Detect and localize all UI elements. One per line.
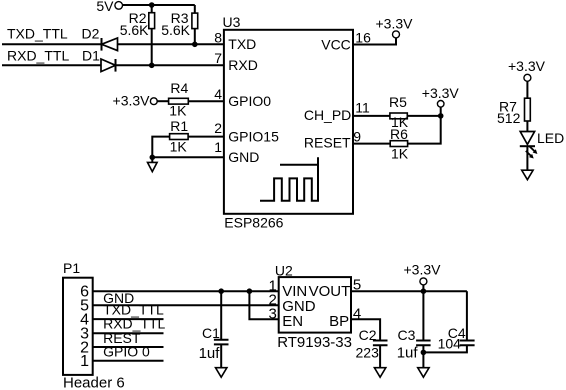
power 5V xyxy=(96,0,122,14)
wire D1 to pin7 xyxy=(116,64,224,66)
svg-text:+3.3V: +3.3V xyxy=(113,92,151,108)
junction R3/TXD xyxy=(192,42,198,48)
power +3.3V at R5 xyxy=(422,85,460,107)
wire BP to C2 xyxy=(351,319,380,340)
capacitor C2 xyxy=(356,327,388,360)
LED D3 xyxy=(520,130,564,160)
ground at C1 xyxy=(216,368,227,378)
wire node up to +3.3V xyxy=(440,107,442,116)
wire R2 top xyxy=(151,5,153,13)
junction VIN/C1 xyxy=(218,288,224,294)
junction R1/GND xyxy=(150,155,156,161)
wire P1 pin4 stub xyxy=(93,318,164,320)
svg-text:R1: R1 xyxy=(170,118,188,134)
connector P1 xyxy=(63,260,125,390)
svg-text:TXD_TTL: TXD_TTL xyxy=(7,26,68,42)
resistor R5 xyxy=(389,94,409,130)
svg-text:11: 11 xyxy=(355,100,370,116)
junction C3/C4 xyxy=(421,350,427,356)
svg-text:1: 1 xyxy=(80,353,89,370)
svg-text:5V: 5V xyxy=(96,0,114,14)
svg-text:RT9193-33: RT9193-33 xyxy=(277,334,352,351)
wire R2 bottom to RXD line xyxy=(151,29,153,66)
wire R5 to node xyxy=(407,115,440,117)
svg-text:C2: C2 xyxy=(359,327,377,343)
svg-text:P1: P1 xyxy=(63,260,80,276)
wire R4 to pin4 xyxy=(188,100,224,102)
svg-text:5.6K: 5.6K xyxy=(161,22,190,38)
wire R7 to LED xyxy=(526,121,528,132)
wire P1 pin3 stub xyxy=(93,332,164,334)
wire R3 top xyxy=(194,5,196,13)
wire R1 left to ground node xyxy=(152,137,169,158)
junction 5V/R2 xyxy=(149,2,155,8)
wire CH_PD to R5 xyxy=(353,115,390,117)
diode D1 xyxy=(82,47,116,71)
wire R3 bottom to TXD line xyxy=(194,29,196,45)
svg-text:EN: EN xyxy=(282,313,303,330)
svg-text:BP: BP xyxy=(329,313,349,330)
wire VCC to +3.3V xyxy=(353,38,396,45)
svg-text:TXD: TXD xyxy=(228,36,256,52)
svg-text:+3.3V: +3.3V xyxy=(376,15,414,31)
svg-text:7: 7 xyxy=(214,50,222,66)
wire C3 top xyxy=(422,291,424,340)
svg-text:GPIO0: GPIO0 xyxy=(228,93,271,109)
wire R1 to pin2 xyxy=(188,136,224,138)
svg-text:RXD: RXD xyxy=(228,57,258,73)
junction R2/RXD xyxy=(149,63,155,69)
svg-text:9: 9 xyxy=(353,128,361,144)
junction VIN/EN xyxy=(247,288,253,294)
wire RESET to R6 xyxy=(353,143,390,145)
svg-text:Header 6: Header 6 xyxy=(63,374,125,390)
wire EN tie xyxy=(249,291,278,319)
svg-text:4: 4 xyxy=(214,86,222,102)
wire P1 pin1 stub xyxy=(93,360,164,362)
svg-text:5.6K: 5.6K xyxy=(120,22,149,38)
svg-text:1K: 1K xyxy=(169,103,187,119)
wire P1 pin6 to U2 VIN xyxy=(93,290,279,292)
resistor R1 xyxy=(170,118,189,155)
junction R5/R6/+3.3V xyxy=(438,113,444,119)
capacitor C3 xyxy=(397,327,431,361)
wire R6 to node xyxy=(408,116,441,144)
svg-text:C3: C3 xyxy=(397,327,415,343)
svg-text:2: 2 xyxy=(214,120,222,136)
diode D2 xyxy=(82,26,118,51)
wire P1 pin5 to U2 GND xyxy=(93,304,279,306)
svg-text:GND: GND xyxy=(228,149,259,165)
wire C4 top xyxy=(466,291,468,340)
wire RXD_TTL xyxy=(2,64,101,66)
ground at LED xyxy=(522,170,533,180)
svg-text:CH_PD: CH_PD xyxy=(304,107,351,123)
antenna squarewave symbol xyxy=(260,157,318,201)
wire +3.3V to R7 xyxy=(526,81,528,98)
power +3.3V at LED xyxy=(508,58,546,82)
power +3.3V at R4 xyxy=(113,92,158,108)
wire +3.3V to R4 xyxy=(157,100,168,102)
svg-text:+3.3V: +3.3V xyxy=(422,85,460,101)
wire TXD_TTL xyxy=(2,43,102,45)
capacitor C4 xyxy=(438,325,475,351)
svg-text:U2: U2 xyxy=(275,262,293,278)
ground at C2 xyxy=(374,368,385,378)
resistor R2 xyxy=(120,10,155,38)
resistor R3 xyxy=(161,10,198,38)
resistor R6 xyxy=(390,126,409,162)
svg-text:U3: U3 xyxy=(223,14,241,30)
wire C4 bottom to C3 node xyxy=(423,345,467,352)
svg-text:1K: 1K xyxy=(391,145,409,161)
svg-text:1uf: 1uf xyxy=(199,345,221,362)
svg-text:R5: R5 xyxy=(389,94,407,110)
ground at C3 xyxy=(418,368,429,378)
svg-text:GPIO15: GPIO15 xyxy=(228,129,279,145)
wire C2 bottom xyxy=(379,345,381,368)
wire node to +3.3V xyxy=(422,285,424,291)
wire C3 bottom xyxy=(422,345,424,368)
svg-text:GPIO 0: GPIO 0 xyxy=(103,344,150,360)
svg-text:RXD_TTL: RXD_TTL xyxy=(7,47,69,63)
svg-text:1uf: 1uf xyxy=(397,344,419,361)
svg-text:223: 223 xyxy=(356,344,380,360)
svg-text:1: 1 xyxy=(214,139,222,155)
svg-text:VCC: VCC xyxy=(321,37,351,53)
svg-text:512: 512 xyxy=(497,110,521,126)
ground at R1 xyxy=(148,157,158,171)
svg-text:ESP8266: ESP8266 xyxy=(224,215,283,231)
svg-text:3: 3 xyxy=(268,305,276,322)
wire C1 bottom xyxy=(220,344,222,367)
wire LED to ground xyxy=(526,146,528,170)
svg-text:R4: R4 xyxy=(170,80,188,96)
junction VOUT/+3.3V/C3 xyxy=(421,288,427,294)
wire 5V rail xyxy=(123,4,195,6)
wire C1 top xyxy=(220,291,222,340)
op-amp U3 ESP8266 body xyxy=(223,14,354,231)
resistor R7 xyxy=(497,98,530,126)
svg-text:16: 16 xyxy=(355,30,371,46)
svg-text:+3.3V: +3.3V xyxy=(508,58,546,74)
svg-text:RESET: RESET xyxy=(304,134,351,150)
wire VOUT rail xyxy=(351,290,467,292)
capacitor C1 xyxy=(199,325,229,362)
wire D2 to pin8 xyxy=(118,43,224,45)
svg-text:LED: LED xyxy=(537,130,564,146)
svg-text:8: 8 xyxy=(214,30,222,46)
svg-text:D1: D1 xyxy=(82,47,100,63)
wire P1 pin2 stub xyxy=(93,346,164,348)
svg-text:R6: R6 xyxy=(390,126,408,142)
svg-text:D2: D2 xyxy=(82,26,100,42)
regulator U2 RT9193-33 xyxy=(275,262,352,350)
svg-text:104: 104 xyxy=(438,335,462,351)
wire pin1 GND xyxy=(152,156,224,158)
power +3.3V at VOUT xyxy=(404,262,442,285)
resistor R4 xyxy=(169,80,189,119)
svg-text:C1: C1 xyxy=(202,325,220,341)
power +3.3V at VCC xyxy=(376,15,414,38)
svg-text:+3.3V: +3.3V xyxy=(404,262,442,278)
svg-text:1K: 1K xyxy=(170,139,188,155)
